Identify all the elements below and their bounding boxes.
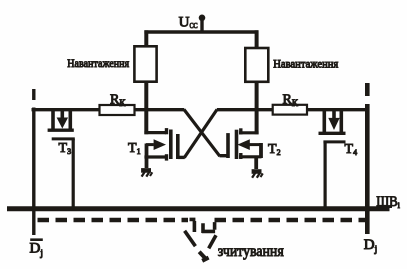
T2 gate bar xyxy=(226,133,230,158)
ground under T2 xyxy=(252,172,263,178)
readout tap: right riser xyxy=(213,222,217,230)
svg-text:Т4: Т4 xyxy=(345,142,358,157)
wire left rail drop to load xyxy=(144,30,148,47)
svg-text:зчитування: зчитування xyxy=(218,243,284,260)
transistor T3 xyxy=(48,110,75,207)
node Ucc junction dot xyxy=(199,14,206,21)
wire dashed read line left part xyxy=(38,218,189,222)
T1 source contact tick xyxy=(165,154,168,160)
T3 gate wire down to word line xyxy=(72,139,75,207)
svg-text:RК: RК xyxy=(110,93,126,109)
wire right row line xyxy=(217,108,370,111)
T3 channel bar xyxy=(48,128,74,131)
wire cross-coupling diagonal D1 (left node to T2 gate) xyxy=(184,110,220,157)
T1 drain contact tick xyxy=(165,128,168,134)
wire top rail xyxy=(144,30,258,33)
label D̄j left bit line xyxy=(30,238,43,241)
transistor T2 xyxy=(220,128,281,169)
T2 source drop to ground xyxy=(254,156,258,169)
wire left row line xyxy=(32,108,185,111)
svg-text:UCC: UCC xyxy=(179,15,198,31)
T3 left contact xyxy=(51,110,55,129)
T4 gate wire down to word line xyxy=(324,142,327,207)
T3 gate bar xyxy=(52,137,75,140)
T4 right contact xyxy=(339,110,343,133)
T4 substrate arrow xyxy=(332,110,336,120)
wire dashed read line right part xyxy=(215,218,367,222)
svg-text:Навантаження: Навантаження xyxy=(273,56,338,70)
wire Ucc stub xyxy=(200,18,203,32)
svg-text:Т3: Т3 xyxy=(59,141,72,156)
T3 substrate arrow xyxy=(60,110,64,119)
resistor RK left xyxy=(100,105,135,115)
wire right bit line xyxy=(365,104,370,234)
wire right internal node vertical xyxy=(255,82,259,134)
resistor load left (Навантаження) xyxy=(134,46,156,81)
T1 substrate wire xyxy=(146,143,154,146)
wire left internal node vertical xyxy=(144,82,148,135)
T4 channel bar xyxy=(319,132,346,135)
svg-text:Т1: Т1 xyxy=(128,141,141,156)
wire right rail drop to load xyxy=(255,30,259,48)
T2 drain contact tick xyxy=(239,128,242,134)
T1 gate bar xyxy=(176,134,180,159)
T2 drain wire xyxy=(239,131,259,134)
resistor RK right xyxy=(273,105,307,115)
T2 source wire xyxy=(239,155,262,158)
wire left bit line top dash xyxy=(32,89,35,100)
T2 source contact tick xyxy=(239,153,242,159)
readout arrow V left stroke xyxy=(185,231,196,246)
wire word line ШВ xyxy=(7,206,390,211)
T1 drain wire xyxy=(144,131,166,134)
readout arrow V right stroke xyxy=(209,235,216,248)
readout arrow tip xyxy=(199,252,208,261)
resistor load right (Навантаження) xyxy=(245,48,268,82)
T1 substrate arrow xyxy=(154,139,166,150)
svg-text:Навантаження: Навантаження xyxy=(67,56,129,70)
T2 channel bar xyxy=(235,130,239,159)
wire left bit line xyxy=(32,108,35,236)
readout tap: bottom dash xyxy=(202,223,215,233)
svg-text:Dj: Dj xyxy=(364,237,377,255)
T1 source drop to ground xyxy=(145,144,149,169)
T2 substrate wire xyxy=(248,143,261,146)
svg-text:Dj: Dj xyxy=(30,241,43,259)
transistor T1 xyxy=(128,128,185,168)
T1 channel bar xyxy=(169,130,173,160)
T4 left contact xyxy=(322,110,326,133)
T1 source wire xyxy=(144,155,166,158)
readout tap: left corner dash xyxy=(190,219,196,232)
svg-text:i: i xyxy=(398,201,401,210)
svg-text:Т2: Т2 xyxy=(268,142,281,157)
T2 gate arm xyxy=(220,154,229,157)
T2 substrate arrow xyxy=(237,139,249,150)
ground under T1 xyxy=(141,170,152,176)
T2 arrow-to-source drop xyxy=(259,143,263,158)
svg-text:RК: RК xyxy=(283,93,299,109)
wire cross-coupling diagonal D2 (right node to T1 gate) xyxy=(184,110,217,158)
wire right bit line top dash xyxy=(365,83,370,96)
T3 right contact xyxy=(69,110,73,129)
T4 gate bar xyxy=(323,140,345,143)
T1 gate arm xyxy=(178,156,185,159)
transistor T4 xyxy=(319,110,358,207)
